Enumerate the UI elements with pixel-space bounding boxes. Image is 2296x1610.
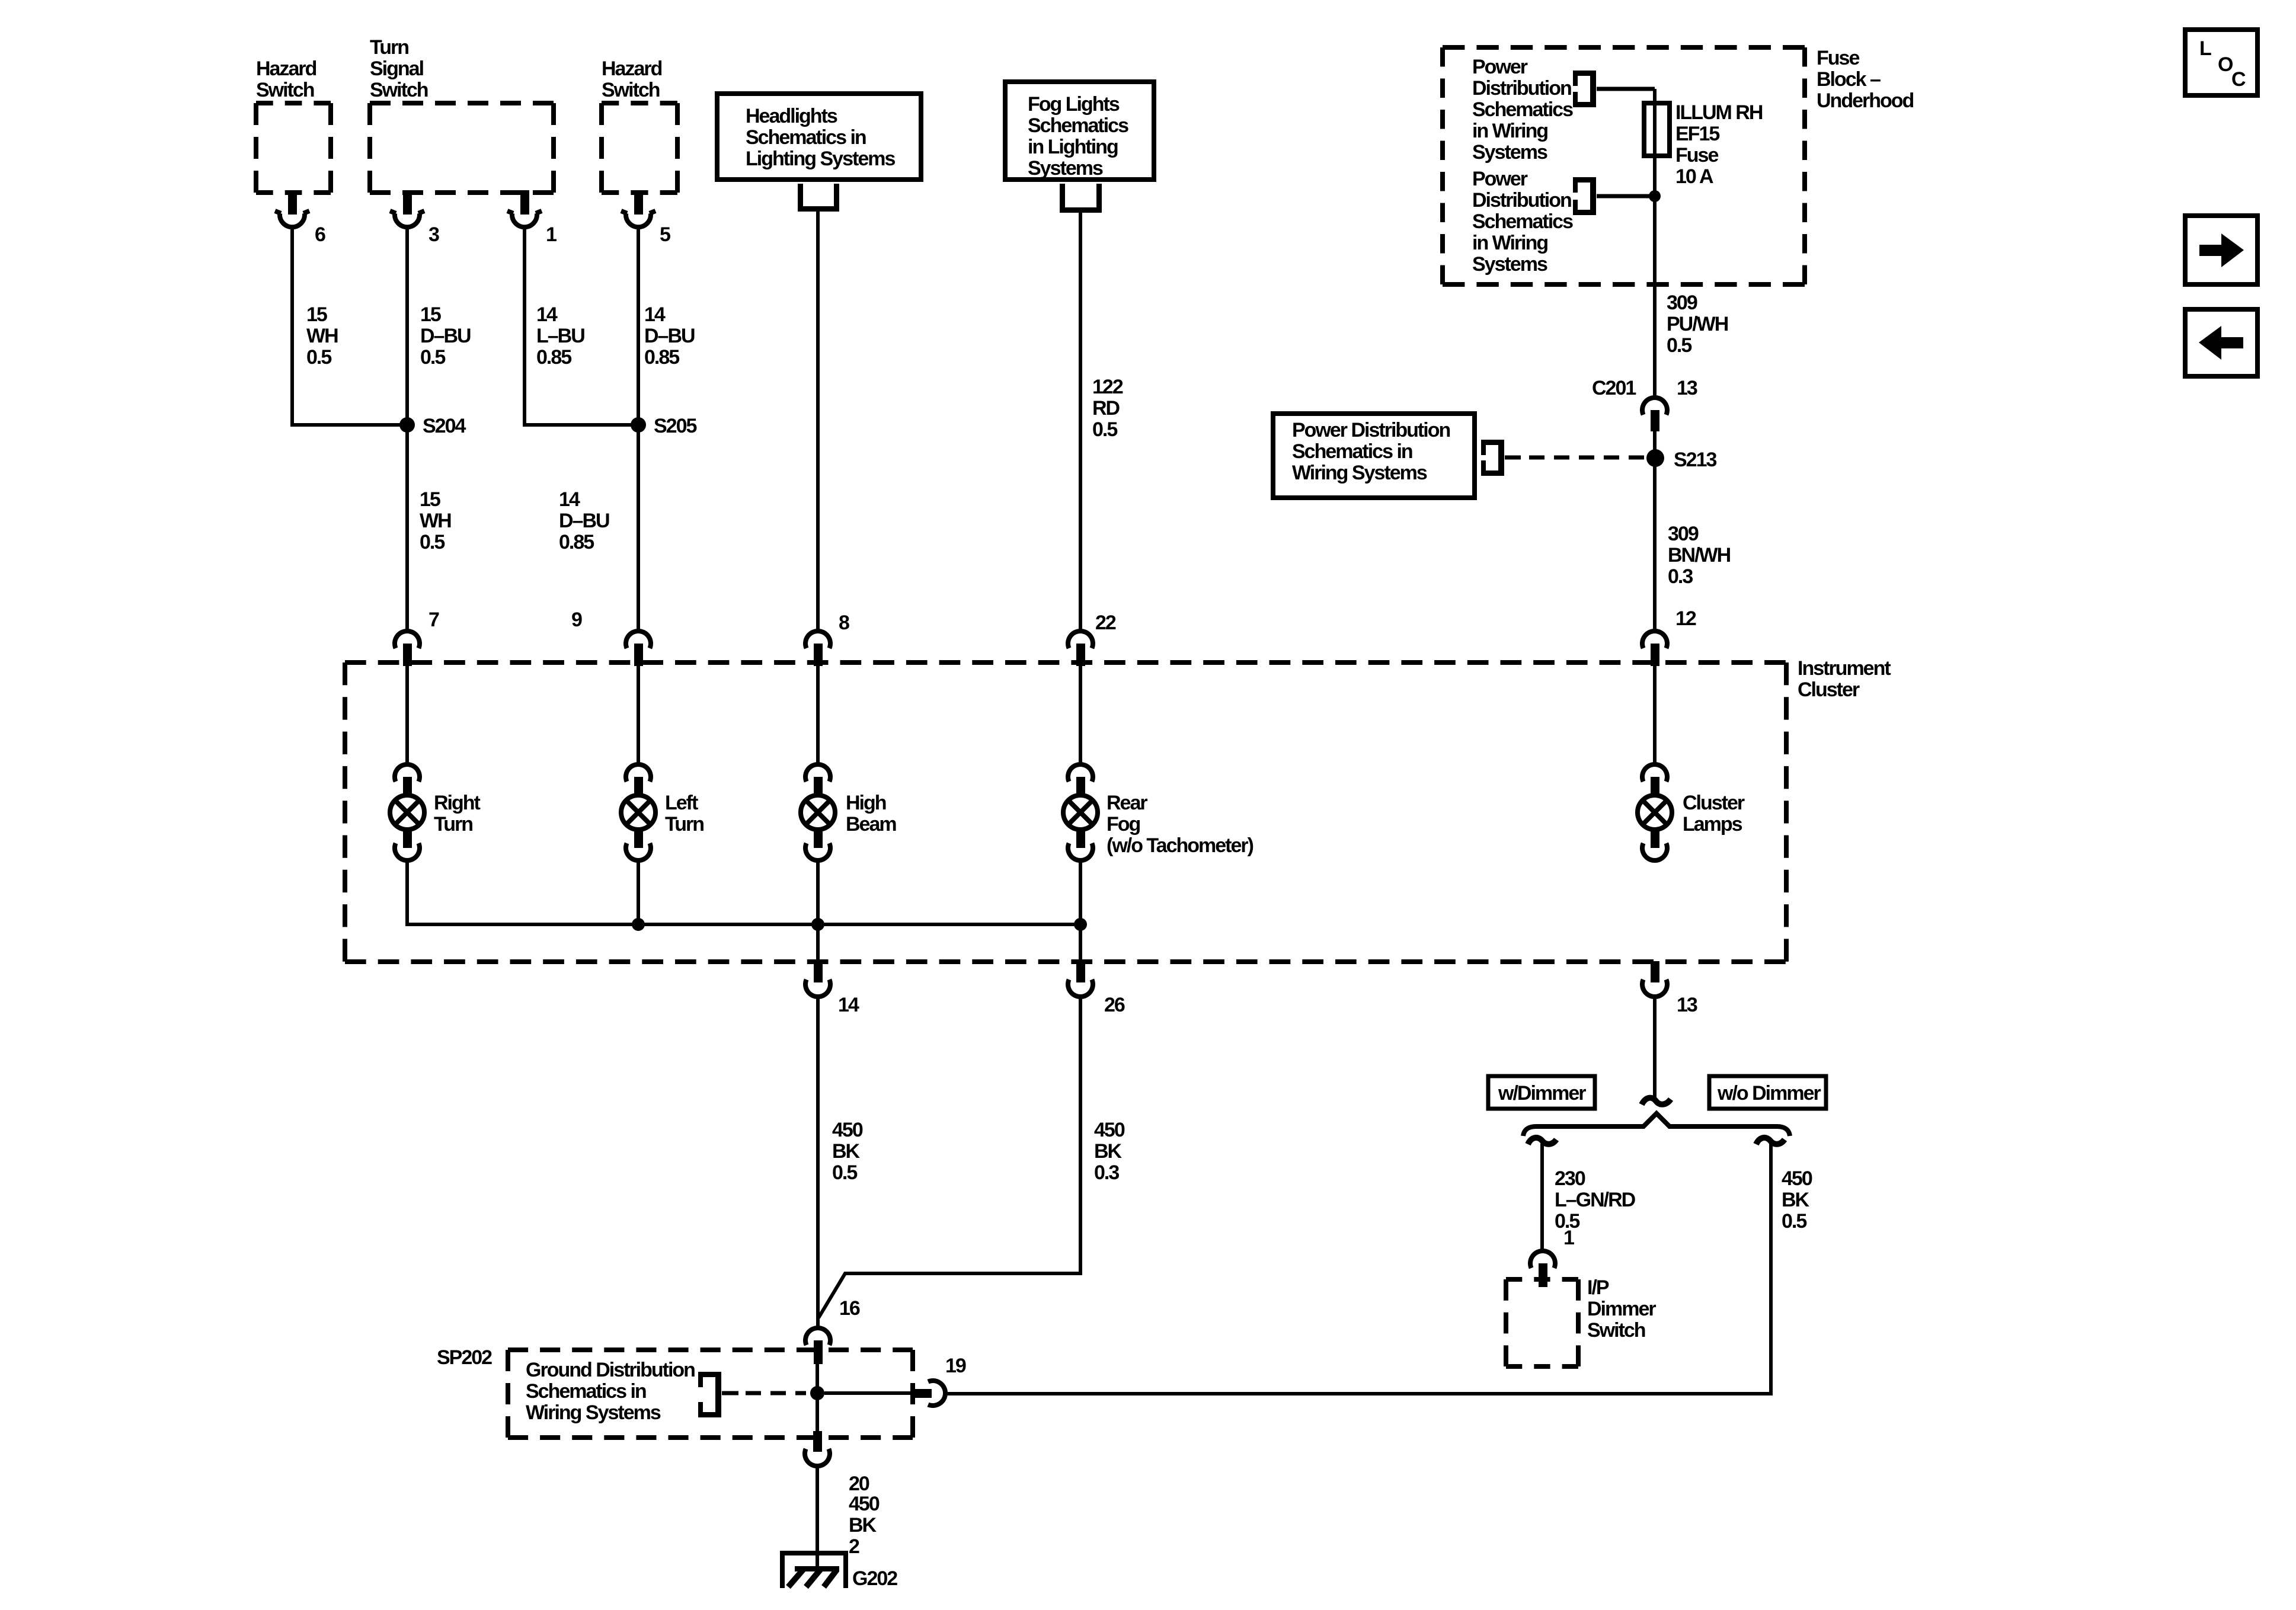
- svg-text:12: 12: [1675, 607, 1696, 630]
- svg-text:15: 15: [306, 303, 327, 326]
- pin 19 stub: [913, 1389, 932, 1398]
- wire label 450 BK 2: [849, 1493, 880, 1558]
- pin 16 stub: [814, 1340, 823, 1364]
- svg-text:0.3: 0.3: [1668, 565, 1693, 588]
- bus junction dot rear fog: [1074, 918, 1087, 931]
- wire through SP202 box: [816, 1364, 819, 1431]
- power distribution text 1: [1472, 56, 1573, 164]
- power distribution schematics box (solid): [1273, 414, 1475, 498]
- svg-text:Cluster: Cluster: [1683, 792, 1745, 814]
- pin number 14: [838, 994, 859, 1016]
- svg-text:BN/WH: BN/WH: [1668, 544, 1731, 566]
- svg-text:High: High: [846, 792, 886, 814]
- cluster pin 14 socket arc: [805, 980, 830, 997]
- turn signal switch (dashed box): [370, 103, 554, 193]
- svg-text:0.85: 0.85: [559, 531, 594, 553]
- svg-text:450: 450: [1782, 1167, 1812, 1190]
- svg-text:0.5: 0.5: [306, 346, 331, 369]
- svg-text:Wiring Systems: Wiring Systems: [526, 1401, 661, 1424]
- label I/P Dimmer Switch: [1587, 1276, 1656, 1342]
- cluster pin 14 stub: [814, 961, 823, 982]
- label pin 12: [1675, 607, 1696, 630]
- cluster pin 8 socket arc: [805, 631, 830, 648]
- svg-text:Switch: Switch: [1587, 1319, 1645, 1342]
- left arrow box: [2185, 309, 2257, 376]
- svg-text:WH: WH: [420, 510, 451, 532]
- wire pin12 to cluster lamps: [1653, 666, 1657, 763]
- wire headlights to pin8: [816, 212, 820, 629]
- pin number 1 (dimmer switch): [1563, 1227, 1574, 1249]
- SP202 ground distribution (dashed box): [508, 1350, 913, 1438]
- svg-text:22: 22: [1095, 612, 1116, 634]
- junction dot below fuse: [1649, 190, 1661, 202]
- svg-text:Schematics: Schematics: [1472, 98, 1573, 121]
- wire left turn lamp to bus: [637, 862, 640, 924]
- fuse block underhood (dashed box): [1443, 47, 1805, 284]
- svg-text:26: 26: [1104, 994, 1125, 1016]
- svg-text:PU/WH: PU/WH: [1667, 313, 1728, 335]
- wire label 450 BK 0.5 (w/o dimmer): [1782, 1167, 1812, 1233]
- splice S205: [631, 417, 646, 433]
- wire label 14 L-BU 0.85 (pin1): [536, 303, 584, 369]
- wire pin13 down to options brace: [1653, 997, 1657, 1097]
- pin number 13: [1677, 994, 1697, 1016]
- svg-text:D–BU: D–BU: [644, 325, 695, 347]
- SP202 junction dot: [810, 1386, 824, 1400]
- wire C201 to S213: [1653, 431, 1657, 629]
- svg-text:0.5: 0.5: [420, 531, 445, 553]
- svg-text:7: 7: [428, 609, 439, 631]
- label Left Turn: [665, 792, 703, 836]
- left arrow: [2199, 326, 2243, 360]
- svg-text:D–BU: D–BU: [420, 325, 471, 347]
- lamp Right Turn: [390, 764, 424, 860]
- wire pin26 down and over to pin16: [818, 997, 1080, 1318]
- svg-text:13: 13: [1677, 994, 1697, 1016]
- power distribution text 2: [1472, 168, 1573, 276]
- wire high beam lamp to pin14: [816, 862, 820, 962]
- wire bracket to splice sp202: [722, 1391, 738, 1395]
- svg-text:G202: G202: [852, 1567, 897, 1590]
- svg-text:L: L: [2199, 37, 2211, 60]
- svg-text:Fog Lights: Fog Lights: [1028, 93, 1120, 116]
- wire pin14 down to pin16: [816, 997, 820, 1326]
- cluster pin 7 stub: [403, 644, 412, 666]
- svg-text:Schematics in: Schematics in: [746, 126, 866, 149]
- svg-text:Right: Right: [434, 792, 481, 814]
- connector pin 1 socket arc: [507, 211, 542, 227]
- options squiggle: [1642, 1098, 1671, 1105]
- pin number 1: [546, 223, 557, 246]
- svg-text:Lighting Systems: Lighting Systems: [746, 148, 895, 170]
- lamp Left Turn: [621, 764, 655, 860]
- wire fog to pin22: [1079, 213, 1082, 629]
- wire right turn lamp to bus: [407, 862, 1080, 924]
- svg-text:D–BU: D–BU: [559, 510, 609, 532]
- wire label 309 PU/WH 0.5: [1667, 292, 1728, 357]
- label SP202: [437, 1346, 492, 1369]
- LOC letters: [2199, 37, 2246, 91]
- svg-text:450: 450: [832, 1119, 863, 1141]
- label C201: [1592, 377, 1636, 399]
- svg-text:15: 15: [420, 488, 440, 511]
- pin 20 socket arc: [805, 1449, 830, 1466]
- wire label 14 D-BU 0.85 (pin5): [644, 303, 695, 369]
- connector pin 6 socket arc: [275, 211, 309, 227]
- svg-text:Systems: Systems: [1028, 157, 1103, 180]
- svg-text:Schematics: Schematics: [1028, 114, 1128, 137]
- wire dimmer branch: [1540, 1144, 1544, 1249]
- label Fuse Block - Underhood: [1817, 47, 1914, 112]
- cluster pin 7 socket arc: [395, 631, 420, 648]
- svg-text:Schematics in: Schematics in: [526, 1380, 646, 1403]
- right arrow: [2199, 233, 2244, 267]
- pin number 20: [849, 1473, 869, 1495]
- svg-text:14: 14: [838, 994, 859, 1016]
- cluster pin 12 socket arc: [1642, 631, 1667, 648]
- connector pin 5 socket arc: [621, 211, 655, 227]
- svg-text:Turn: Turn: [370, 36, 408, 59]
- wire bracket1 to fuse: [1597, 87, 1655, 91]
- connector pin 1 stub: [520, 190, 529, 215]
- svg-text:C: C: [2231, 68, 2246, 91]
- pin number 9: [571, 609, 582, 631]
- pin number 8: [839, 612, 849, 634]
- svg-text:5: 5: [660, 223, 670, 246]
- fog box exit bracket: [1060, 184, 1102, 213]
- svg-text:SP202: SP202: [437, 1346, 492, 1369]
- svg-text:Power: Power: [1472, 56, 1528, 78]
- svg-text:Switch: Switch: [256, 79, 314, 101]
- cluster pin 9 stub: [634, 644, 643, 666]
- label S204: [423, 415, 466, 437]
- svg-text:Distribution: Distribution: [1472, 189, 1571, 212]
- bracket for ground distribution: [698, 1372, 721, 1417]
- label Instrument Cluster: [1798, 657, 1891, 701]
- svg-text:RD: RD: [1092, 397, 1120, 420]
- svg-text:16: 16: [839, 1297, 860, 1320]
- w/o Dimmer branch hook: [1756, 1138, 1785, 1144]
- svg-text:in Lighting: in Lighting: [1028, 136, 1118, 158]
- svg-text:Systems: Systems: [1472, 253, 1547, 276]
- wire pin22 to rear fog lamp: [1079, 666, 1082, 763]
- pin number 7: [428, 609, 439, 631]
- bus junction dot high beam: [811, 918, 824, 931]
- wire bracket to splice (short): [1505, 456, 1521, 460]
- svg-text:Power: Power: [1472, 168, 1528, 190]
- svg-text:BK: BK: [1094, 1140, 1123, 1163]
- right arrow box: [2185, 216, 2257, 284]
- fuse wire through body: [1653, 89, 1657, 395]
- svg-text:1: 1: [1563, 1227, 1574, 1249]
- dashed wire to S213: [1529, 456, 1648, 460]
- svg-text:Turn: Turn: [665, 813, 703, 836]
- svg-text:19: 19: [945, 1355, 966, 1377]
- ground distribution box text: [526, 1359, 695, 1424]
- dimmer pin1 stub: [1539, 1263, 1547, 1287]
- bracket for power distribution box: [1481, 440, 1504, 476]
- wire pin20 to ground: [816, 1466, 819, 1569]
- wire pin3 to S204/pin7: [405, 228, 409, 629]
- wire label 15 WH 0.5 (below S204): [420, 488, 451, 553]
- svg-text:Signal: Signal: [370, 57, 424, 80]
- svg-text:S213: S213: [1674, 449, 1716, 471]
- fog lights schematics box: [1005, 82, 1154, 180]
- svg-text:S205: S205: [654, 415, 696, 437]
- svg-text:8: 8: [839, 612, 849, 634]
- svg-text:9: 9: [571, 609, 582, 631]
- dimmer pin1 socket arc: [1530, 1251, 1555, 1268]
- connector pin 3 stub: [403, 190, 412, 215]
- svg-text:Switch: Switch: [370, 79, 428, 101]
- svg-text:w/o Dimmer: w/o Dimmer: [1717, 1082, 1821, 1105]
- cluster pin 12 stub: [1651, 644, 1659, 666]
- svg-text:Schematics in: Schematics in: [1292, 440, 1412, 463]
- svg-text:BK: BK: [832, 1140, 861, 1163]
- splice S213: [1646, 449, 1664, 467]
- svg-text:122: 122: [1092, 376, 1123, 398]
- svg-text:Underhood: Underhood: [1817, 89, 1914, 112]
- pin number 16: [839, 1297, 860, 1320]
- label S205: [654, 415, 696, 437]
- svg-text:Wiring Systems: Wiring Systems: [1292, 462, 1427, 484]
- ground symbol G202: [780, 1551, 848, 1588]
- svg-text:Systems: Systems: [1472, 141, 1547, 164]
- wire pin8 to high beam lamp: [816, 666, 820, 763]
- lamp High Beam: [801, 764, 835, 860]
- bracket for power distribution 1: [1573, 71, 1596, 107]
- svg-text:Dimmer: Dimmer: [1587, 1298, 1656, 1320]
- label High Beam: [846, 792, 896, 836]
- svg-text:0.85: 0.85: [536, 346, 571, 369]
- lamp Rear Fog: [1063, 764, 1098, 860]
- svg-text:C201: C201: [1592, 377, 1636, 399]
- label w/o Dimmer (boxed): [1709, 1076, 1826, 1109]
- svg-text:230: 230: [1555, 1167, 1585, 1190]
- label Rear Fog (w/o Tachometer): [1107, 792, 1253, 857]
- svg-text:450: 450: [1094, 1119, 1125, 1141]
- pin 16 socket arc: [805, 1328, 830, 1345]
- options brace: [1523, 1113, 1790, 1136]
- svg-text:Hazard: Hazard: [602, 57, 662, 80]
- cluster pin 8 stub: [814, 644, 823, 666]
- pin number 6: [315, 223, 325, 246]
- pin 20 stub: [813, 1431, 822, 1452]
- svg-text:Distribution: Distribution: [1472, 77, 1571, 100]
- svg-text:Beam: Beam: [846, 813, 896, 836]
- svg-text:Block –: Block –: [1817, 68, 1881, 91]
- svg-text:0.5: 0.5: [1782, 1210, 1806, 1233]
- svg-text:L–BU: L–BU: [536, 325, 584, 347]
- svg-text:BK: BK: [849, 1514, 877, 1537]
- wire label 14 D-BU 0.85 (below S205): [559, 488, 609, 553]
- svg-text:10 A: 10 A: [1675, 165, 1713, 188]
- svg-text:Headlights: Headlights: [746, 105, 837, 127]
- label S213: [1674, 449, 1716, 471]
- svg-text:in Wiring: in Wiring: [1472, 120, 1547, 142]
- svg-text:0.85: 0.85: [644, 346, 679, 369]
- connector pin 3 socket arc: [390, 211, 424, 227]
- svg-text:Instrument: Instrument: [1798, 657, 1891, 680]
- pin number 22: [1095, 612, 1116, 634]
- cluster pin 26 socket arc: [1068, 980, 1093, 997]
- fog lights box text: [1028, 93, 1128, 180]
- svg-text:w/Dimmer: w/Dimmer: [1498, 1082, 1586, 1105]
- label Cluster Lamps: [1683, 792, 1745, 836]
- cluster pin 13 socket arc: [1642, 980, 1667, 997]
- svg-text:Power Distribution: Power Distribution: [1292, 419, 1450, 441]
- svg-text:ILLUM RH: ILLUM RH: [1675, 101, 1763, 124]
- cluster pin 22 socket arc: [1068, 631, 1093, 648]
- svg-text:L–GN/RD: L–GN/RD: [1555, 1189, 1636, 1211]
- svg-text:Fog: Fog: [1107, 813, 1140, 836]
- connector C201 socket arc: [1642, 398, 1667, 415]
- hazard switch 2 (dashed box): [602, 103, 677, 193]
- svg-text:0.5: 0.5: [1667, 334, 1691, 357]
- wire label 15 D-BU 0.5 (pin3): [420, 303, 471, 369]
- svg-text:1: 1: [546, 223, 557, 246]
- label Turn Signal Switch: [370, 36, 428, 101]
- label w/Dimmer (boxed): [1488, 1076, 1595, 1109]
- label ILLUM RH EF15 Fuse 10A: [1675, 101, 1763, 188]
- wire label 309 BN/WH 0.3: [1668, 523, 1731, 588]
- cluster pin 9 socket arc: [626, 631, 651, 648]
- bus junction dot left turn: [632, 918, 645, 931]
- connector pin 6 stub: [288, 190, 297, 215]
- dashed wire to SP202 junction: [746, 1391, 806, 1395]
- svg-text:Turn: Turn: [434, 813, 472, 836]
- label Hazard Switch (left): [256, 57, 316, 101]
- pin number 19: [945, 1355, 966, 1377]
- w/Dimmer branch hook: [1528, 1138, 1556, 1144]
- hazard switch 1 (dashed box): [256, 103, 331, 193]
- cluster pin 22 stub: [1076, 644, 1085, 666]
- svg-text:(w/o Tachometer): (w/o Tachometer): [1107, 834, 1253, 857]
- wire label 450 BK 0.5 (pin14): [832, 1119, 863, 1184]
- instrument cluster (dashed box): [345, 662, 1786, 962]
- wire pin7 to right turn lamp: [405, 666, 409, 763]
- cluster pin 13 stub: [1651, 961, 1659, 982]
- svg-text:Switch: Switch: [602, 79, 660, 101]
- svg-text:6: 6: [315, 223, 325, 246]
- svg-text:2: 2: [849, 1535, 859, 1558]
- headlights box text: [746, 105, 895, 170]
- label Right Turn: [434, 792, 481, 836]
- connector C201 stub: [1651, 410, 1659, 431]
- svg-text:450: 450: [849, 1493, 880, 1515]
- pin number 3: [428, 223, 439, 246]
- svg-text:Fuse: Fuse: [1817, 47, 1859, 69]
- wire label 450 BK 0.3 (pin26): [1094, 1119, 1125, 1184]
- cluster pin 26 stub: [1076, 961, 1085, 982]
- svg-text:in Wiring: in Wiring: [1472, 232, 1547, 254]
- svg-text:0.3: 0.3: [1094, 1161, 1119, 1184]
- svg-text:Schematics: Schematics: [1472, 210, 1573, 233]
- lamp Cluster Lamps: [1638, 764, 1672, 860]
- connector pin 5 stub: [634, 190, 643, 215]
- svg-text:3: 3: [428, 223, 439, 246]
- label pin 13 at C201: [1677, 377, 1697, 399]
- wire pin6 to S204: [292, 228, 407, 425]
- wire label 230 L-GN/RD 0.5: [1555, 1167, 1636, 1233]
- pin number 5: [660, 223, 670, 246]
- headlights box exit bracket: [798, 184, 839, 212]
- LOC legend box: [2185, 30, 2257, 95]
- wire bracket2 to junction: [1597, 194, 1655, 199]
- svg-text:EF15: EF15: [1675, 123, 1719, 145]
- wire label 15 WH 0.5 (pin6): [306, 303, 338, 369]
- svg-text:BK: BK: [1782, 1189, 1810, 1211]
- wire w/o dimmer branch to pin19 wire: [946, 1144, 1771, 1394]
- svg-text:I/P: I/P: [1587, 1276, 1609, 1299]
- svg-text:0.5: 0.5: [832, 1161, 857, 1184]
- wire pin1 to S205: [525, 228, 638, 425]
- svg-text:20: 20: [849, 1473, 869, 1495]
- svg-text:309: 309: [1667, 292, 1697, 314]
- svg-text:15: 15: [420, 303, 441, 326]
- wire pin5 to S205/pin9: [637, 228, 640, 629]
- wire pin9 to left turn lamp: [637, 666, 640, 763]
- svg-text:Fuse: Fuse: [1675, 144, 1718, 167]
- label Hazard Switch (right): [602, 57, 662, 101]
- wire junction to pin19: [824, 1391, 914, 1395]
- pin 19 socket arc: [928, 1381, 945, 1406]
- splice S204: [399, 417, 415, 433]
- svg-text:0.5: 0.5: [420, 346, 445, 369]
- fuse ILLUM RH EF15 (body): [1644, 103, 1670, 156]
- svg-text:309: 309: [1668, 523, 1699, 545]
- svg-text:Cluster: Cluster: [1798, 678, 1860, 701]
- svg-text:Left: Left: [665, 792, 698, 814]
- svg-text:14: 14: [644, 303, 666, 326]
- svg-text:14: 14: [536, 303, 558, 326]
- svg-text:13: 13: [1677, 377, 1697, 399]
- I/P dimmer switch (dashed box): [1506, 1279, 1578, 1366]
- label G202: [852, 1567, 897, 1590]
- svg-text:Hazard: Hazard: [256, 57, 316, 80]
- svg-text:Rear: Rear: [1107, 792, 1147, 814]
- wire label 122 RD 0.5: [1092, 376, 1123, 441]
- svg-text:0.5: 0.5: [1092, 418, 1117, 441]
- svg-text:WH: WH: [306, 325, 338, 347]
- bracket for power distribution 2: [1573, 177, 1596, 215]
- svg-text:Lamps: Lamps: [1683, 813, 1742, 836]
- svg-text:S204: S204: [423, 415, 466, 437]
- headlights schematics box: [717, 94, 921, 180]
- wire rear fog lamp to pin26: [1079, 862, 1082, 962]
- power distribution box text: [1292, 419, 1450, 484]
- pin number 26: [1104, 994, 1125, 1016]
- svg-text:14: 14: [559, 488, 580, 511]
- svg-text:Ground Distribution: Ground Distribution: [526, 1359, 695, 1381]
